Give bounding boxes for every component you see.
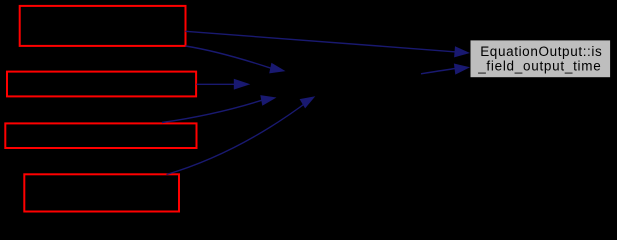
node: EquationOutput::is_field_output_time (gray) xyxy=(470,40,611,78)
node: caller box 2 (red, label hidden) xyxy=(7,72,196,97)
edge E2: box1 -> hidden middle node xyxy=(186,46,286,73)
node: caller box 3 (red, label hidden) xyxy=(5,123,196,148)
svg-text:EquationOutput::is: EquationOutput::is xyxy=(480,44,602,59)
node: caller box 4 (red, label hidden) xyxy=(24,174,179,211)
edge E5: box4 -> hidden middle node xyxy=(167,96,316,174)
edge E3: box2 -> hidden middle node xyxy=(197,79,251,90)
edge E4: box3 -> hidden middle node xyxy=(162,95,277,122)
edge E6: hidden middle node -> gray node xyxy=(421,64,470,75)
svg-text:_field_output_time: _field_output_time xyxy=(477,59,601,74)
node: caller box 1 (red, label hidden) xyxy=(20,6,186,46)
edge E1: box1 -> gray node xyxy=(186,31,471,57)
